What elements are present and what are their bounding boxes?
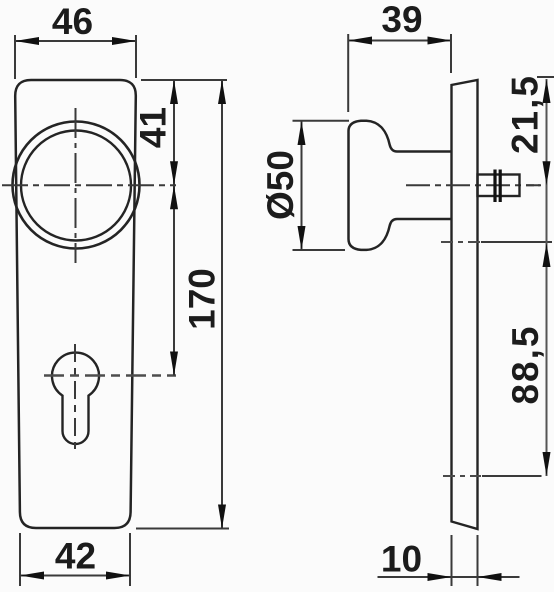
extension line bottom (plate bottom, for 170) <box>136 528 229 530</box>
keyhole vertical centerline <box>74 344 76 449</box>
dim 39 arrows <box>348 37 372 45</box>
dim 41 line (plate top to knob axis) <box>173 80 175 376</box>
svg-text:88,5: 88,5 <box>505 324 546 404</box>
dim 42 extension lines <box>19 533 21 586</box>
extension line plate top right (for 21,5) <box>537 76 554 78</box>
svg-text:46: 46 <box>52 1 93 42</box>
knob horizontal centerline <box>2 184 176 186</box>
knob axis centerline (side view) <box>406 184 540 186</box>
knob inner circle <box>21 131 131 241</box>
svg-text:39: 39 <box>381 0 422 40</box>
spindle fixing bars <box>493 170 496 203</box>
dim 21,5 / 88,5 vertical line <box>546 79 548 476</box>
svg-text:10: 10 <box>381 539 422 580</box>
dim 170 arrows <box>218 80 226 104</box>
knob vertical centerline <box>75 108 77 263</box>
svg-text:Ø50: Ø50 <box>260 150 301 220</box>
dim 170 line <box>221 80 223 529</box>
lower reference centerline (21,5 / 88,5 upper ref) <box>441 241 480 243</box>
keyhole horizontal centerline <box>44 374 176 376</box>
dim 88,5 arrows <box>543 243 551 267</box>
dim 46 extension lines <box>14 35 16 79</box>
dim 39 line <box>348 40 452 42</box>
svg-text:170: 170 <box>182 268 223 330</box>
dim 39 extension lines <box>347 34 349 112</box>
plate outline (front view, tapered rounded rectangle) <box>15 80 136 528</box>
dim 46 arrows <box>15 37 39 45</box>
knob side profile <box>349 121 452 250</box>
unlabeled chain arrows (knob axis to keyhole axis) <box>170 185 178 209</box>
knob outer circle <box>13 122 140 249</box>
spindle rectangle <box>478 175 520 197</box>
dim 41 arrows <box>170 80 178 104</box>
dim 46 line <box>15 40 136 42</box>
bottom reference centerline (88,5 lower ref) <box>443 475 481 477</box>
keyhole (euro profile cylinder cutout) <box>52 353 99 444</box>
dim d50 arrows <box>298 121 306 145</box>
dim 42 arrows <box>20 572 44 580</box>
dim 10 line <box>378 576 520 578</box>
svg-text:42: 42 <box>55 536 96 577</box>
svg-text:21,5: 21,5 <box>505 74 546 154</box>
dim 10 arrows <box>428 573 452 581</box>
axis extension dashes to dim line <box>526 184 541 186</box>
dim d50 line <box>301 121 303 250</box>
dim 42 line <box>20 575 130 577</box>
svg-text:41: 41 <box>133 107 174 148</box>
dim d50 extension lines <box>293 120 350 122</box>
plate side strip <box>452 80 478 529</box>
dim 21,5 arrows <box>543 79 551 103</box>
dim 10 extension lines <box>451 535 453 586</box>
extension line top (plate top, for 41/170) <box>141 79 227 81</box>
